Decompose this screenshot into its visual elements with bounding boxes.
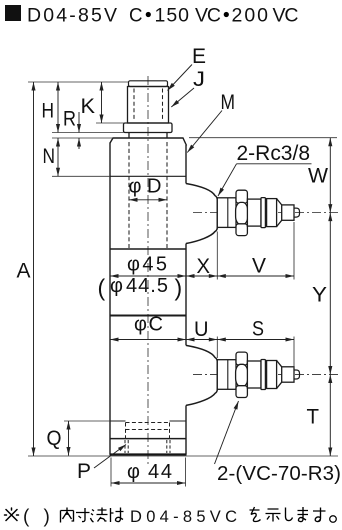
svg-text:φ: φ	[129, 176, 142, 198]
right dimension line W Y T	[329, 138, 331, 456]
svg-text:Y: Y	[312, 284, 327, 307]
svg-text:(: (	[23, 507, 30, 528]
svg-text:P: P	[77, 460, 91, 483]
svg-text:2-(VC-70-R3): 2-(VC-70-R3)	[217, 462, 341, 485]
extension line phi44 right	[185, 458, 187, 487]
extension line bottom common	[28, 455, 338, 457]
svg-text:2-Rc3/8: 2-Rc3/8	[237, 142, 311, 165]
lower port boss	[186, 345, 217, 405]
svg-text:VC: VC	[273, 5, 299, 27]
plug thread hidden line left	[133, 89, 135, 122]
extension line X boss face upper	[216, 232, 218, 280]
dimension phiD	[129, 199, 167, 201]
svg-text:M: M	[221, 91, 236, 114]
dimension R (outside arrows)	[78, 112, 80, 133]
footnote reference mark and japanese text	[5, 508, 19, 521]
dimension Q	[68, 421, 70, 456]
svg-text:S: S	[252, 318, 264, 341]
bottom port thread hidden lines	[124, 440, 126, 453]
upper port boss	[186, 184, 217, 244]
extension line U boss face lower	[216, 337, 218, 359]
svg-text:C: C	[129, 5, 143, 27]
bottom recess shoulder left	[110, 420, 126, 422]
svg-text:J: J	[193, 68, 205, 91]
bottom recess hidden top	[126, 422, 170, 424]
plug top rim E	[129, 81, 168, 87]
dimension A	[33, 82, 35, 456]
extension line N bottom	[52, 175, 110, 177]
svg-text:X: X	[197, 255, 211, 278]
dimension phi44	[111, 482, 186, 484]
svg-text:φ45: φ45	[127, 254, 167, 276]
extension line phi44 left	[110, 458, 112, 487]
dimension line phi45 X V	[110, 275, 294, 277]
plug thread hidden line right	[162, 89, 164, 122]
svg-text:E: E	[192, 45, 206, 68]
extension line V tip upper	[293, 222, 295, 280]
plug body	[128, 87, 169, 124]
dimension H	[57, 82, 59, 133]
extension line plug flange bottom	[52, 132, 124, 134]
svg-text:44: 44	[148, 461, 172, 483]
svg-text:44.5: 44.5	[126, 275, 168, 297]
body bottom edge	[110, 453, 187, 455]
body section line 2	[110, 248, 186, 250]
body section line 4	[110, 438, 186, 440]
svg-text:VC: VC	[195, 5, 221, 27]
svg-text:Q: Q	[47, 427, 62, 450]
extension line K bottom	[96, 122, 128, 124]
svg-text:V: V	[252, 255, 266, 278]
extension line Q top	[64, 420, 110, 422]
dimension line phiC U S	[110, 339, 294, 341]
body top edge with chamfers	[110, 138, 187, 146]
body right edge middle segment	[185, 244, 187, 346]
svg-text:R: R	[63, 108, 76, 131]
body section line 1	[110, 175, 186, 177]
bottom recess hidden mid	[126, 429, 170, 431]
svg-text:W: W	[308, 165, 328, 188]
svg-text:H: H	[42, 100, 55, 123]
dimension K	[101, 82, 103, 123]
svg-text:N: N	[43, 145, 56, 168]
extension line body top	[52, 137, 113, 139]
svg-text:D04-85V: D04-85V	[27, 5, 117, 27]
plug flange	[124, 123, 173, 133]
dimension N	[57, 138, 59, 176]
svg-text:200: 200	[232, 5, 269, 27]
svg-text:D: D	[147, 176, 161, 198]
body right edge upper segment	[185, 145, 187, 184]
body right edge lower segment	[185, 405, 187, 454]
title square bullet	[5, 5, 21, 21]
svg-text:K: K	[81, 95, 96, 118]
svg-text:T: T	[307, 406, 320, 429]
svg-text:): )	[44, 507, 50, 528]
bore hidden line left	[128, 142, 130, 248]
lower quick coupler	[193, 352, 338, 397]
upper quick coupler	[193, 190, 338, 235]
extension line W top right	[189, 137, 337, 139]
body section line 3	[110, 315, 186, 317]
bottom recess hidden side left	[125, 423, 127, 439]
extension line S tip lower	[293, 337, 295, 369]
extension line cap top	[28, 81, 129, 83]
svg-text:150: 150	[155, 5, 190, 27]
svg-text:): )	[175, 275, 183, 301]
svg-text:φC: φC	[134, 314, 163, 336]
svg-text:A: A	[17, 259, 32, 283]
svg-text:(: (	[98, 275, 106, 301]
bore hidden line right	[166, 142, 168, 248]
body left edge	[109, 143, 111, 455]
bottom recess shoulder right	[170, 420, 187, 422]
svg-text:φ: φ	[127, 461, 140, 483]
main vertical centerline	[147, 76, 149, 464]
plug neck	[129, 133, 167, 139]
svg-text:U: U	[194, 318, 209, 341]
svg-text:φ: φ	[110, 275, 123, 297]
bottom recess hidden side right	[169, 423, 171, 439]
